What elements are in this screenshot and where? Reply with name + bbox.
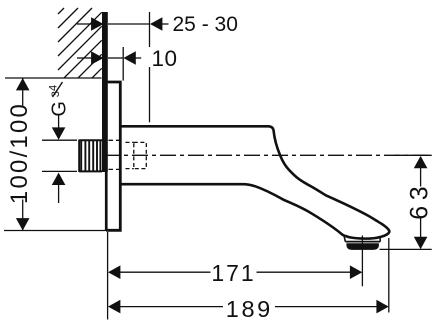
svg-text:100/100: 100/100 — [6, 102, 33, 204]
svg-text:63: 63 — [406, 181, 434, 220]
svg-text:10: 10 — [152, 46, 178, 71]
svg-text:189: 189 — [226, 296, 273, 322]
svg-text:G: G — [49, 101, 71, 117]
svg-text:25 - 30: 25 - 30 — [173, 13, 238, 36]
svg-text:171: 171 — [211, 260, 255, 286]
